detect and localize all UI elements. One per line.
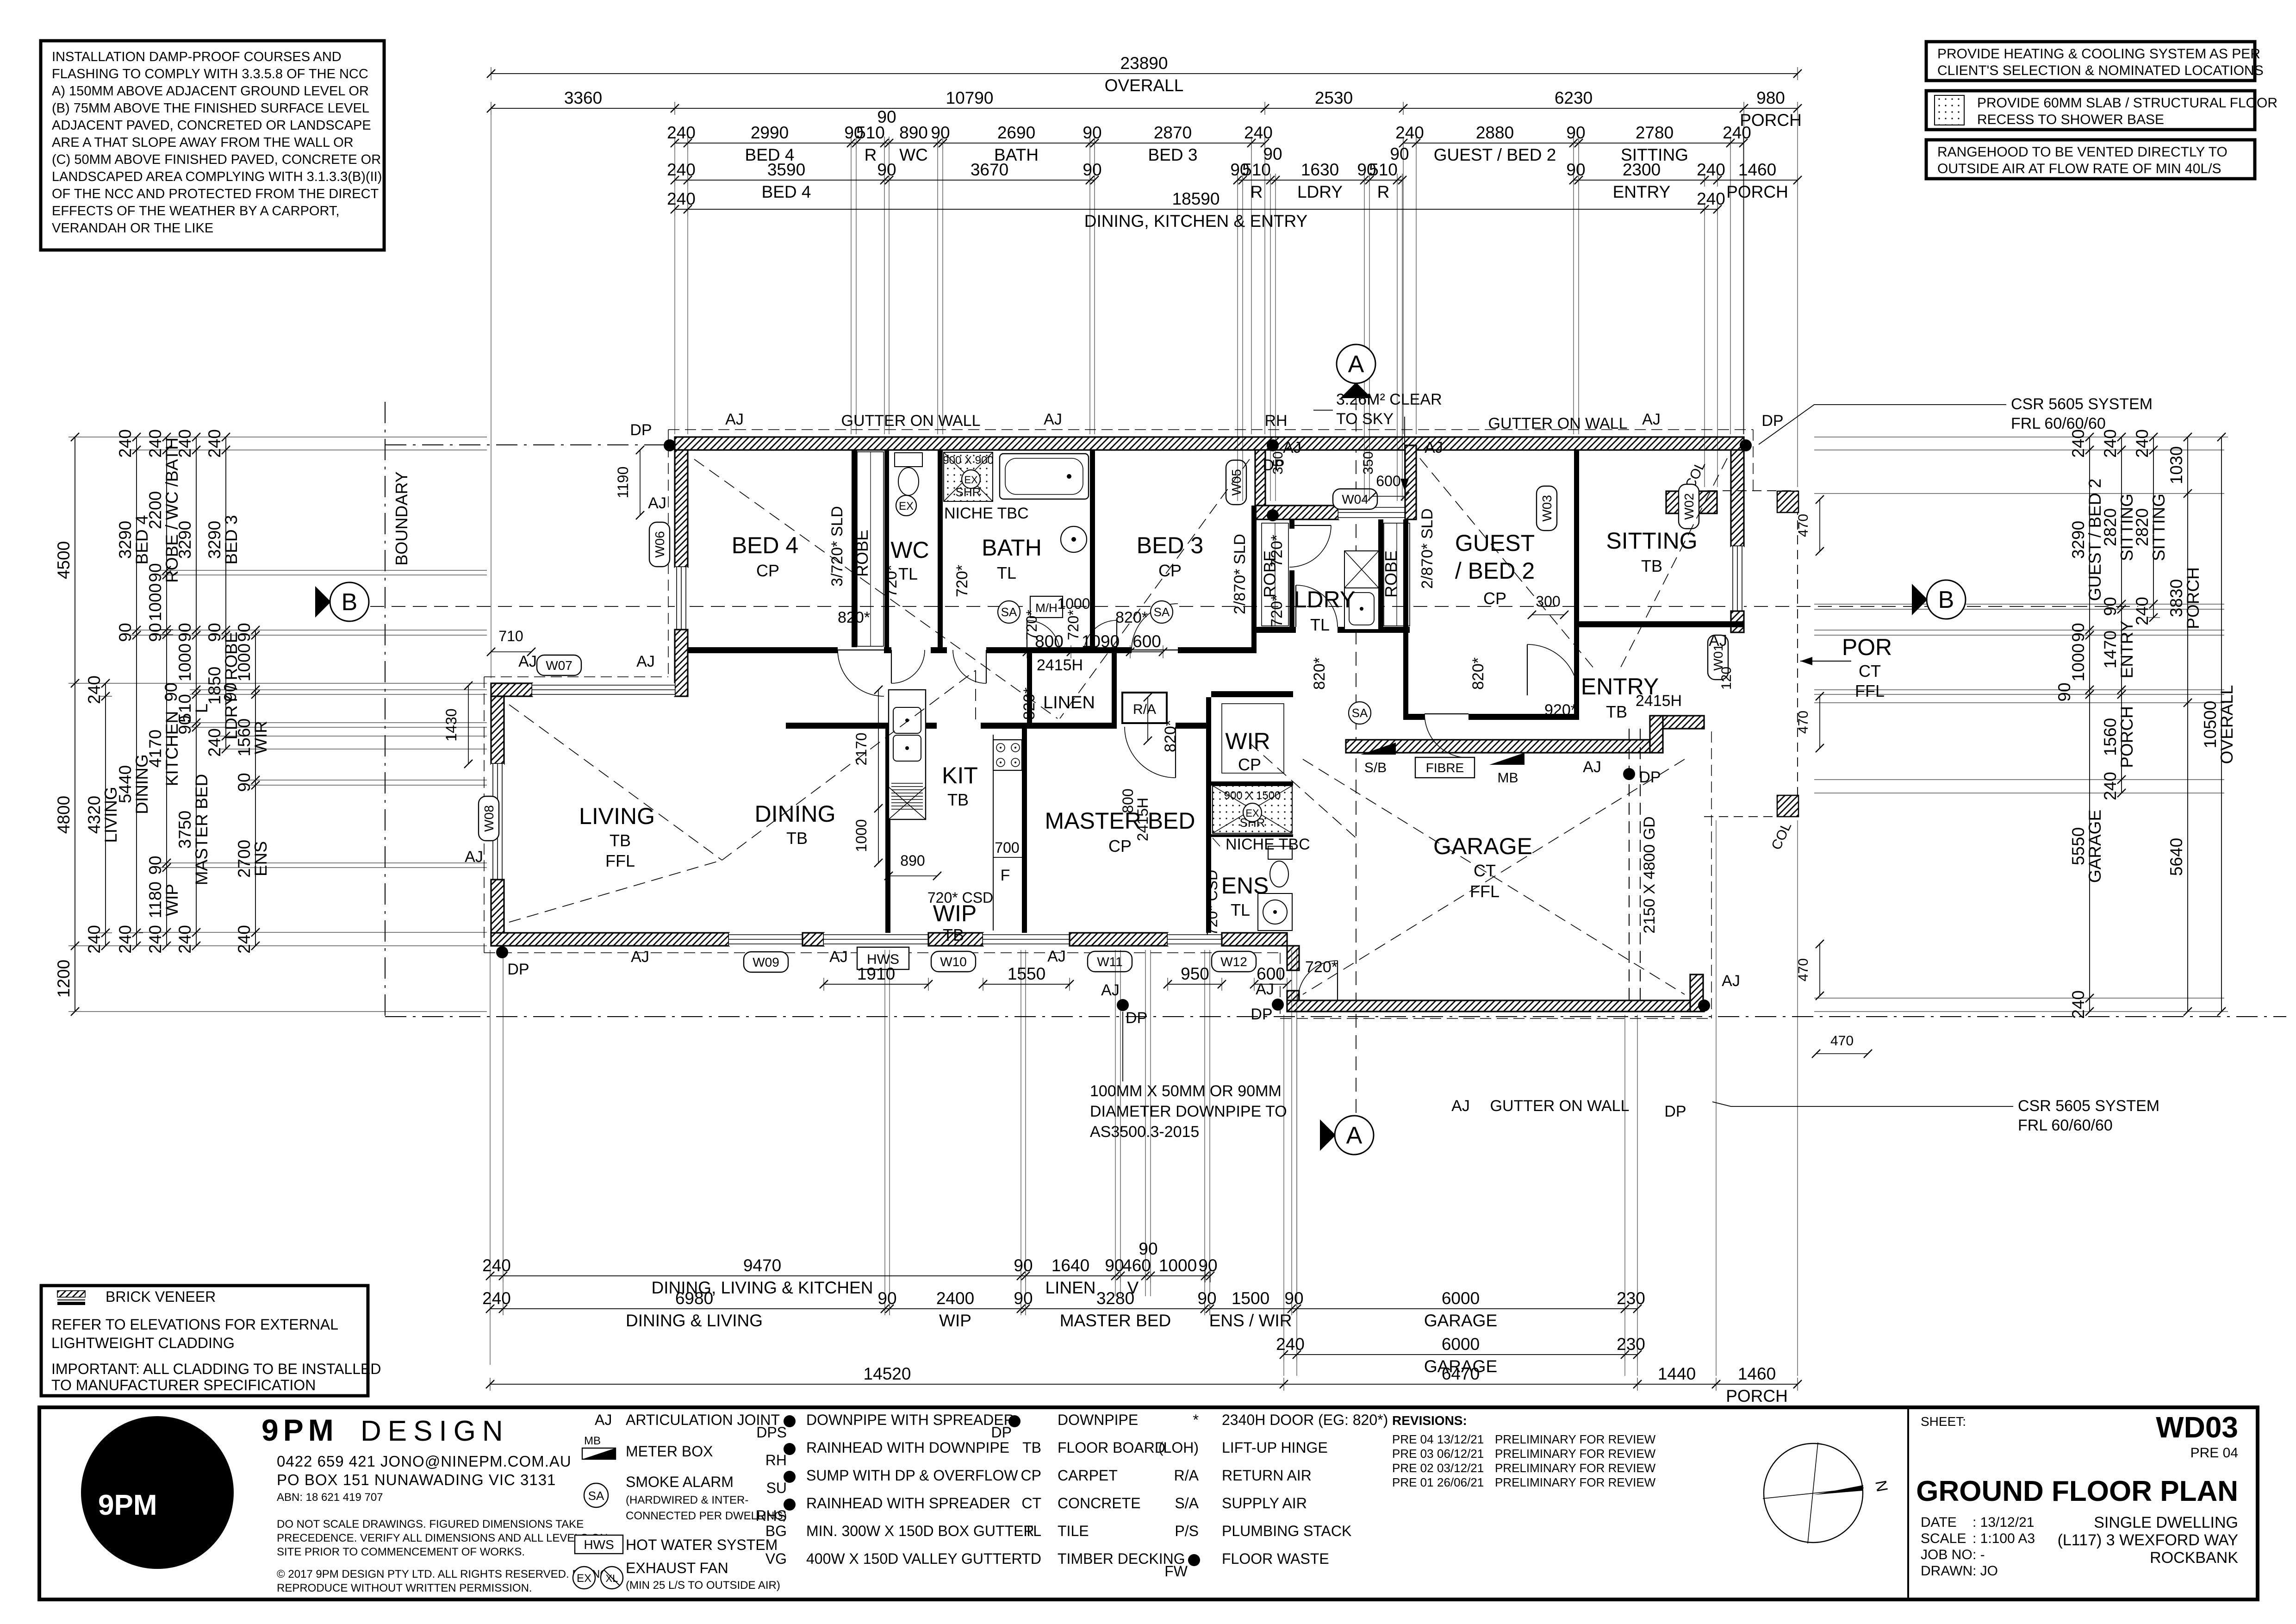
svg-text:90: 90 xyxy=(877,107,896,126)
door arc bed4 xyxy=(838,650,884,696)
svg-text:ENTRY: ENTRY xyxy=(2117,621,2136,679)
fixture WC toilet xyxy=(895,453,922,495)
svg-text:CLIENT'S SELECTION & NOMINATED: CLIENT'S SELECTION & NOMINATED LOCATIONS xyxy=(1937,63,2264,78)
svg-text:5550: 5550 xyxy=(2069,827,2088,865)
svg-text:90: 90 xyxy=(1083,160,1101,179)
boundary line bottom xyxy=(385,1016,2286,1017)
courtyard wall left xyxy=(1255,450,1265,506)
exterior wall living left upper xyxy=(491,696,504,764)
svg-text:720*: 720* xyxy=(1065,610,1082,640)
svg-text:CP: CP xyxy=(1108,837,1132,856)
svg-text:INSTALLATION DAMP-PROOF COURSE: INSTALLATION DAMP-PROOF COURSES AND xyxy=(52,50,342,64)
interior wall corridor a xyxy=(688,647,838,653)
svg-text:TO SKY: TO SKY xyxy=(1336,410,1394,428)
svg-text:240: 240 xyxy=(146,925,165,954)
svg-text:CP: CP xyxy=(1158,561,1182,580)
extension lines right dims xyxy=(1814,437,2224,437)
svg-text:1550: 1550 xyxy=(1008,964,1045,983)
note box: heating cooling xyxy=(1926,42,2255,81)
svg-text:240: 240 xyxy=(85,925,104,954)
svg-text:TB: TB xyxy=(786,829,808,848)
svg-text:13/12/21: 13/12/21 xyxy=(1437,1432,1484,1446)
window W12 xyxy=(1168,933,1222,946)
window W07 band xyxy=(532,683,675,696)
svg-text:4320: 4320 xyxy=(85,796,104,834)
svg-text:90: 90 xyxy=(1014,1289,1033,1308)
svg-text:W12: W12 xyxy=(1220,955,1247,969)
svg-text:710: 710 xyxy=(498,628,523,644)
svg-text:W09: W09 xyxy=(753,955,779,969)
svg-text:470: 470 xyxy=(1830,1033,1854,1049)
svg-text:B: B xyxy=(342,589,358,616)
svg-text:NICHE TBC: NICHE TBC xyxy=(944,505,1029,522)
svg-text:90: 90 xyxy=(116,623,135,642)
dim row 6980 xyxy=(482,1289,1645,1330)
svg-text:240: 240 xyxy=(1697,189,1725,208)
svg-text:WIR: WIR xyxy=(1225,728,1270,754)
svg-text:2530: 2530 xyxy=(1315,88,1353,107)
wir shelf xyxy=(1222,704,1284,773)
svg-text:1190: 1190 xyxy=(615,467,631,499)
window label W01 xyxy=(1708,635,1728,680)
left dim col bed4/dining xyxy=(116,429,151,954)
roof line dining diagonal xyxy=(722,670,976,860)
svg-text:5440: 5440 xyxy=(116,765,135,803)
svg-text:PRELIMINARY FOR REVIEW: PRELIMINARY FOR REVIEW xyxy=(1495,1447,1656,1461)
svg-text:PRE 04: PRE 04 xyxy=(1392,1432,1434,1446)
svg-text:240: 240 xyxy=(2069,429,2088,458)
door arc guest xyxy=(1425,714,1468,758)
svg-text:TL: TL xyxy=(1231,900,1250,919)
porch arrow head xyxy=(1800,657,1812,665)
svg-text:240: 240 xyxy=(146,429,165,458)
svg-text:240: 240 xyxy=(1395,123,1424,142)
svg-text:240: 240 xyxy=(482,1289,511,1308)
svg-text:14520: 14520 xyxy=(864,1364,911,1383)
svg-text:03/12/21: 03/12/21 xyxy=(1437,1461,1484,1475)
svg-text:890: 890 xyxy=(900,852,925,869)
svg-text:2340H DOOR (EG: 820*): 2340H DOOR (EG: 820*) xyxy=(1222,1412,1388,1428)
svg-text:DP: DP xyxy=(1664,1103,1686,1120)
svg-text:SA: SA xyxy=(1001,605,1017,619)
door arc bath xyxy=(953,650,986,683)
svg-text:FFL: FFL xyxy=(1470,882,1500,901)
svg-text:BED 3: BED 3 xyxy=(222,515,241,565)
svg-text:240: 240 xyxy=(667,160,696,179)
svg-text:GARAGE: GARAGE xyxy=(1424,1311,1497,1330)
title block frame xyxy=(39,1407,2258,1599)
svg-text:4800: 4800 xyxy=(54,796,73,834)
svg-text:3290: 3290 xyxy=(205,521,224,559)
interior wall bed4 right xyxy=(852,450,857,647)
eave line living left xyxy=(484,677,485,953)
section line B-B xyxy=(370,606,2138,607)
svg-text:GARAGE: GARAGE xyxy=(2085,810,2104,883)
window label W06 xyxy=(649,522,670,567)
svg-text:W10: W10 xyxy=(940,955,967,969)
svg-text:ABN: 18 621 419 707: ABN: 18 621 419 707 xyxy=(277,1491,383,1504)
window label W04 xyxy=(1333,489,1377,509)
svg-text:470: 470 xyxy=(1796,711,1811,734)
interior wall linen right xyxy=(1112,653,1117,729)
exterior wall garage front xyxy=(1287,1000,1704,1012)
svg-text:/ BED 2: / BED 2 xyxy=(1455,558,1535,584)
door arc linen right xyxy=(1084,620,1117,653)
svg-text:720*: 720* xyxy=(953,565,971,597)
svg-text:CONCRETE: CONCRETE xyxy=(1058,1495,1141,1512)
svg-text:DP: DP xyxy=(1251,1006,1272,1023)
fixture shower 900x900 xyxy=(944,452,993,501)
svg-text:BED 3: BED 3 xyxy=(1148,145,1198,164)
right dim col guest/garage xyxy=(2055,429,2104,1019)
roof line wir diagonal xyxy=(1250,743,1356,838)
interior wall sitting south xyxy=(1579,621,1744,627)
svg-text:90: 90 xyxy=(1198,1256,1217,1275)
svg-text:SUMP WITH DP & OVERFLOW: SUMP WITH DP & OVERFLOW xyxy=(806,1467,1018,1484)
dim 1550 xyxy=(979,964,1074,991)
eave line garage right xyxy=(1711,731,1712,1018)
svg-text:(B) 75MM ABOVE THE FINISHED SU: (B) 75MM ABOVE THE FINISHED SURFACE LEVE… xyxy=(52,101,369,116)
exterior wall sitting right lower xyxy=(1731,611,1744,632)
svg-text:FRL 60/60/60: FRL 60/60/60 xyxy=(2011,415,2106,432)
interior wall master/ens xyxy=(1206,697,1211,933)
svg-text:90: 90 xyxy=(146,623,165,642)
svg-text:AS3500.3-2015: AS3500.3-2015 xyxy=(1090,1123,1199,1141)
svg-text:AJ: AJ xyxy=(725,411,744,428)
svg-text:23890: 23890 xyxy=(1120,54,1168,73)
interior wall hall/guest left xyxy=(1403,519,1408,720)
svg-text:GARAGE: GARAGE xyxy=(1433,833,1532,859)
svg-text:DP: DP xyxy=(1761,412,1783,430)
svg-text:2880: 2880 xyxy=(1476,123,1514,142)
dim row 800/1090/600 xyxy=(1023,632,1167,658)
svg-text:CSR 5605 SYSTEM: CSR 5605 SYSTEM xyxy=(2018,1097,2159,1115)
dim 950 xyxy=(1164,964,1226,991)
svg-text:MASTER BED: MASTER BED xyxy=(1060,1311,1171,1330)
dim row 9470 xyxy=(482,1239,1217,1297)
interior wall guest south b xyxy=(1468,714,1579,720)
svg-text:AJ: AJ xyxy=(636,653,655,670)
svg-text:B: B xyxy=(1938,587,1954,613)
window W04 xyxy=(1338,506,1405,519)
exterior wall bottom 5 xyxy=(1222,933,1287,946)
svg-text:ARE A THAT SLOPE AWAY FROM THE: ARE A THAT SLOPE AWAY FROM THE WALL OR xyxy=(52,135,354,150)
svg-text:1440: 1440 xyxy=(1658,1364,1696,1383)
svg-text:PORCH: PORCH xyxy=(2184,567,2203,629)
svg-text:820*: 820* xyxy=(838,609,870,626)
svg-text:2415H: 2415H xyxy=(1636,692,1682,710)
svg-text:2820: 2820 xyxy=(2133,508,2152,546)
svg-text:90: 90 xyxy=(1139,1239,1157,1258)
svg-text:(LOH): (LOH) xyxy=(1158,1439,1199,1456)
svg-text:90: 90 xyxy=(235,623,254,642)
svg-text:470: 470 xyxy=(1796,514,1811,537)
interior wall wc/bath xyxy=(938,450,943,647)
svg-text:240: 240 xyxy=(482,1256,511,1275)
robe guest outline xyxy=(1384,523,1410,626)
symbol SA corridor 2 xyxy=(1151,601,1173,623)
svg-text:DP: DP xyxy=(1126,1009,1147,1027)
svg-text:240: 240 xyxy=(116,429,135,458)
interior wall ldry left lower xyxy=(1289,570,1294,631)
svg-text:ROBE: ROBE xyxy=(852,530,871,577)
svg-text:DP: DP xyxy=(1639,768,1661,786)
svg-text:400W X 150D VALLEY GUTTER: 400W X 150D VALLEY GUTTER xyxy=(806,1550,1022,1567)
exterior wall sitting right upper xyxy=(1731,450,1744,546)
right dim col porch xyxy=(2167,433,2203,1016)
svg-text:2415H: 2415H xyxy=(1134,798,1151,841)
interior wall corridor c xyxy=(931,647,947,653)
svg-text:90: 90 xyxy=(1566,123,1585,142)
exterior wall living left lower xyxy=(491,880,504,946)
svg-text:: -: : - xyxy=(1972,1547,1985,1562)
svg-text:4170: 4170 xyxy=(146,730,165,768)
svg-text:240: 240 xyxy=(205,429,224,458)
svg-text:90: 90 xyxy=(235,773,254,792)
svg-text:FW: FW xyxy=(1164,1563,1188,1580)
svg-text:POR: POR xyxy=(1842,634,1892,660)
svg-text:REFER TO ELEVATIONS FOR EXTERN: REFER TO ELEVATIONS FOR EXTERNAL xyxy=(51,1316,338,1333)
boundary line left xyxy=(385,402,386,1017)
door arc master xyxy=(1125,727,1176,778)
svg-text:DIAMETER DOWNPIPE TO: DIAMETER DOWNPIPE TO xyxy=(1090,1103,1287,1120)
svg-text:A: A xyxy=(1346,1122,1363,1149)
svg-text:2/870* SLD: 2/870* SLD xyxy=(1419,508,1436,589)
svg-text:SUPPLY AIR: SUPPLY AIR xyxy=(1222,1495,1307,1512)
svg-text:RAINHEAD WITH DOWNPIPE: RAINHEAD WITH DOWNPIPE xyxy=(806,1439,1009,1456)
svg-text:REVISIONS:: REVISIONS: xyxy=(1392,1413,1467,1428)
meter box MB xyxy=(1489,753,1524,765)
svg-text:FLOOR BOARD: FLOOR BOARD xyxy=(1058,1439,1165,1456)
kitchen bench edge xyxy=(993,735,994,931)
svg-text:470: 470 xyxy=(1796,958,1811,981)
svg-text:2820: 2820 xyxy=(2101,508,2120,546)
svg-text:240: 240 xyxy=(2101,772,2120,800)
door arc wc xyxy=(891,650,925,683)
eave line bed4 left xyxy=(668,430,669,677)
dim 1000 kitchen xyxy=(874,808,883,867)
fixture kitchen sink xyxy=(893,707,921,761)
window W10 xyxy=(824,933,928,946)
svg-text:GROUND FLOOR PLAN: GROUND FLOOR PLAN xyxy=(1916,1475,2238,1507)
svg-text:HOT WATER SYSTEM: HOT WATER SYSTEM xyxy=(626,1537,778,1553)
eave line living top xyxy=(484,676,668,677)
window label W02 xyxy=(1679,484,1699,529)
svg-text:90: 90 xyxy=(877,160,896,179)
section marker A bottom xyxy=(1320,1116,1374,1155)
svg-text:720* CSD: 720* CSD xyxy=(927,889,993,906)
svg-text:9PM: 9PM xyxy=(261,1413,338,1447)
svg-text:: JO: : JO xyxy=(1972,1563,1998,1579)
svg-text:AJ: AJ xyxy=(1451,1097,1470,1115)
svg-text:230: 230 xyxy=(1617,1335,1645,1354)
svg-text:AJ: AJ xyxy=(829,948,848,966)
left dim col masterbed xyxy=(162,429,211,954)
svg-text:VERANDAH OR THE LIKE: VERANDAH OR THE LIKE xyxy=(52,221,213,236)
svg-text:90: 90 xyxy=(1014,1256,1033,1275)
svg-text:DP: DP xyxy=(991,1424,1012,1441)
svg-text:EX: EX xyxy=(577,1572,591,1585)
svg-text:REPRODUCE WITHOUT WRITTEN PERM: REPRODUCE WITHOUT WRITTEN PERMISSION. xyxy=(277,1582,532,1594)
svg-text:AJ: AJ xyxy=(1044,411,1062,428)
svg-text:EFFECTS OF THE WEATHER BY A CA: EFFECTS OF THE WEATHER BY A CARPORT, xyxy=(52,204,339,219)
svg-text:3670: 3670 xyxy=(971,160,1008,179)
exterior wall garage right stub xyxy=(1690,974,1703,1012)
courtyard wall right / guest left xyxy=(1405,445,1416,519)
svg-text:6470: 6470 xyxy=(1442,1364,1480,1383)
svg-text:PORCH: PORCH xyxy=(2117,706,2136,768)
section marker B left xyxy=(315,582,369,621)
roof line garage diagonal 1 xyxy=(1303,759,1685,994)
roof line bed3 diagonal xyxy=(1060,459,1250,718)
extension lines left dims xyxy=(78,437,487,437)
svg-text:R: R xyxy=(1377,182,1390,201)
svg-text:(MIN 25 L/S TO OUTSIDE AIR): (MIN 25 L/S TO OUTSIDE AIR) xyxy=(626,1579,780,1592)
svg-text:10500: 10500 xyxy=(2201,701,2220,749)
svg-text:1000: 1000 xyxy=(1057,595,1090,612)
dim row ldry xyxy=(1230,144,1409,201)
svg-text:GUEST / BED 2: GUEST / BED 2 xyxy=(1434,145,1556,164)
roof line sitting diagonal xyxy=(1620,458,1727,669)
door arc linen left xyxy=(1027,620,1060,653)
downpipe mid bottom xyxy=(1117,999,1129,1011)
svg-text:890: 890 xyxy=(899,123,928,142)
eave line garage step xyxy=(1280,953,1281,1018)
svg-text:EX: EX xyxy=(899,500,914,512)
svg-text:1500: 1500 xyxy=(1232,1289,1269,1308)
svg-text:RANGEHOOD TO BE VENTED DIRECTL: RANGEHOOD TO BE VENTED DIRECTLY TO xyxy=(1937,144,2228,160)
svg-text:240: 240 xyxy=(667,123,696,142)
dim 600 xyxy=(1250,964,1291,991)
svg-text:820*: 820* xyxy=(1311,657,1328,690)
svg-text:CT: CT xyxy=(1859,662,1881,681)
svg-text:SITTING: SITTING xyxy=(1606,528,1697,554)
svg-text:SINGLE DWELLING: SINGLE DWELLING xyxy=(2094,1514,2238,1531)
svg-text:3590: 3590 xyxy=(767,160,805,179)
porch column COL top xyxy=(1777,491,1798,512)
svg-text:720*: 720* xyxy=(1305,958,1338,976)
interior wall kitchen south a xyxy=(786,723,937,729)
svg-text:AJ: AJ xyxy=(1425,439,1443,456)
note box: damp-proof courses xyxy=(41,41,384,250)
legend box brick veneer xyxy=(41,1286,368,1396)
fixture ens basin xyxy=(1258,893,1292,931)
svg-text:WC: WC xyxy=(890,537,929,563)
svg-text:CP: CP xyxy=(1021,1467,1041,1484)
svg-text:RH: RH xyxy=(1264,412,1287,430)
svg-text:FFL: FFL xyxy=(1855,681,1885,700)
svg-text:1090: 1090 xyxy=(1082,632,1120,651)
svg-text:METER BOX: METER BOX xyxy=(626,1443,713,1460)
svg-text:DO NOT SCALE DRAWINGS. FIGURED: DO NOT SCALE DRAWINGS. FIGURED DIMENSION… xyxy=(277,1518,584,1530)
svg-text:1000: 1000 xyxy=(235,643,254,681)
left dim col living xyxy=(85,675,120,954)
svg-text:2400: 2400 xyxy=(936,1289,974,1308)
svg-text:F: F xyxy=(1001,867,1010,884)
svg-text:LANDSCAPED AREA COMPLYING WITH: LANDSCAPED AREA COMPLYING WITH 3.1.3.3(B… xyxy=(52,169,382,184)
window label W08 xyxy=(479,796,499,841)
dim 710 xyxy=(487,648,535,656)
legend column B downpipes xyxy=(784,1415,796,1427)
svg-text:VG: VG xyxy=(765,1550,787,1567)
svg-text:90: 90 xyxy=(175,623,194,642)
svg-text:90: 90 xyxy=(877,1289,896,1308)
svg-text:720*: 720* xyxy=(1268,595,1286,627)
svg-text:800: 800 xyxy=(1120,788,1136,813)
svg-text:1470: 1470 xyxy=(2101,631,2120,668)
svg-text:240: 240 xyxy=(175,925,194,954)
svg-text:BRICK VENEER: BRICK VENEER xyxy=(106,1288,216,1305)
svg-text:SITTING: SITTING xyxy=(2149,493,2168,561)
svg-text:W07: W07 xyxy=(546,658,572,673)
svg-text:TL: TL xyxy=(997,563,1016,582)
svg-text:1630: 1630 xyxy=(1301,160,1339,179)
dim 1190 xyxy=(636,446,644,519)
exterior wall living top stub xyxy=(491,683,532,696)
door arc ldry north xyxy=(1289,525,1331,567)
svg-text:240: 240 xyxy=(2069,990,2088,1019)
svg-text:240: 240 xyxy=(1276,1335,1305,1354)
svg-text:90: 90 xyxy=(1566,160,1585,179)
svg-text:TL: TL xyxy=(1310,615,1330,634)
downpipe rh xyxy=(1267,439,1279,451)
svg-text:LDRY: LDRY xyxy=(1294,587,1355,612)
svg-text:S/B: S/B xyxy=(1364,760,1387,775)
svg-text:90: 90 xyxy=(2055,682,2074,701)
window label W03 xyxy=(1537,486,1557,531)
svg-text:FFL: FFL xyxy=(605,851,635,870)
interior wall kitchen south b xyxy=(981,723,1027,729)
svg-text:WIP: WIP xyxy=(939,1311,971,1330)
svg-text:BATH: BATH xyxy=(982,535,1042,561)
svg-text:240: 240 xyxy=(116,925,135,954)
robe bed3 outline xyxy=(1262,523,1288,626)
svg-text:TB: TB xyxy=(947,790,969,809)
garage door dash 2 xyxy=(1640,729,1641,1000)
roof line guest diagonal xyxy=(1420,458,1594,669)
svg-text:LINEN: LINEN xyxy=(1045,1278,1096,1297)
leader CSR bottom xyxy=(1712,1102,2013,1106)
porch outline top xyxy=(1708,490,1798,491)
interior wall wip right xyxy=(1022,729,1027,933)
svg-text:2300: 2300 xyxy=(1623,160,1661,179)
svg-text:ENTRY: ENTRY xyxy=(1613,182,1671,201)
svg-text:DP: DP xyxy=(630,421,652,439)
svg-text:AJ: AJ xyxy=(1101,981,1120,999)
svg-text:: 13/12/21: : 13/12/21 xyxy=(1972,1515,2034,1530)
interior wall wir/shower xyxy=(1211,781,1293,786)
window W06 xyxy=(675,567,688,630)
svg-text:PRECEDENCE. VERIFY ALL DIMENSI: PRECEDENCE. VERIFY ALL DIMENSIONS AND AL… xyxy=(277,1532,608,1544)
svg-text:3290: 3290 xyxy=(175,521,194,559)
svg-text:PLUMBING STACK: PLUMBING STACK xyxy=(1222,1523,1351,1539)
legend SA smoke alarm xyxy=(584,1483,608,1507)
dim row 23890 overall xyxy=(487,54,1802,95)
right dim col sitting2 xyxy=(2133,429,2168,625)
porch beam W02 xyxy=(1666,491,1717,513)
roof line living diagonal 2 xyxy=(509,860,722,922)
arrow to sky xyxy=(1400,417,1409,491)
dim row garage 6000 xyxy=(1276,1335,1645,1376)
left dim col bed3/ldry xyxy=(205,429,241,757)
extension lines top dims xyxy=(491,112,492,678)
dim 2170 kitchen xyxy=(874,686,883,812)
svg-text:R/A: R/A xyxy=(1133,702,1156,717)
svg-text:AJ: AJ xyxy=(1283,439,1301,456)
svg-text:PRELIMINARY FOR REVIEW: PRELIMINARY FOR REVIEW xyxy=(1495,1432,1656,1446)
robe bed4 rail xyxy=(870,452,871,646)
interior wall ldry right xyxy=(1378,519,1383,631)
